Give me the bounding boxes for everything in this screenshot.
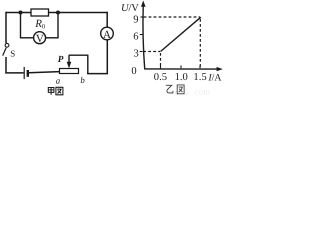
x tick 0.5	[160, 65, 162, 68]
wire voltmeter left horizontal	[20, 37, 34, 39]
wire slider to right branch	[69, 54, 88, 56]
wire bottom left	[5, 72, 23, 74]
resistor R0 box	[31, 9, 49, 16]
rheostat body	[60, 69, 79, 74]
wire voltmeter branch left vertical	[20, 13, 22, 38]
svg-text:6: 6	[133, 32, 138, 43]
wire right vertical lower	[106, 40, 108, 75]
y tick 9	[140, 16, 143, 18]
wire top horizontal	[6, 12, 108, 14]
svg-text:1.5: 1.5	[193, 72, 206, 83]
graph x-axis	[144, 68, 217, 70]
svg-text:0: 0	[42, 23, 45, 30]
x tick 1.0	[180, 65, 182, 68]
node dot left	[19, 11, 23, 15]
svg-text:b: b	[80, 75, 85, 85]
svg-text:V: V	[131, 3, 139, 14]
dashed line U=9	[144, 16, 200, 18]
svg-text:3: 3	[134, 49, 139, 60]
svg-text:P: P	[58, 55, 64, 65]
wire bottom right	[87, 73, 108, 75]
svg-text:wen5. com: wen5. com	[168, 86, 211, 96]
svg-text:1.0: 1.0	[175, 72, 188, 83]
svg-text:S: S	[10, 48, 15, 58]
battery cell: short thick plate	[27, 70, 29, 77]
ammeter A	[101, 27, 114, 40]
y tick 6	[140, 34, 143, 36]
graph y-axis	[143, 6, 145, 69]
wire left vertical upper	[5, 12, 7, 44]
node dot right	[56, 11, 60, 15]
svg-text:/A: /A	[212, 72, 222, 83]
wire right-mid vertical	[87, 55, 89, 75]
wire left vertical lower	[5, 57, 7, 74]
svg-text:V: V	[36, 33, 44, 45]
battery cell: long plate	[23, 67, 25, 79]
rheostat slider arrow P	[68, 55, 70, 62]
caption jia-tu (figure 1)	[48, 87, 63, 95]
switch S	[5, 43, 9, 47]
dashed line I=0.5	[160, 53, 162, 68]
y tick 3	[140, 51, 143, 53]
svg-text:0: 0	[131, 66, 136, 77]
svg-text:a: a	[56, 75, 61, 85]
wire voltmeter right horizontal	[46, 37, 59, 39]
x tick 1.5	[199, 65, 201, 68]
voltmeter V	[34, 32, 46, 44]
caption yi-tu (figure 2)	[166, 85, 184, 94]
dashed line I=1.5	[199, 19, 201, 68]
svg-text:0.5: 0.5	[154, 72, 167, 83]
U-I line	[161, 17, 201, 51]
dashed line U=3	[143, 51, 160, 53]
wire battery to rheostat	[29, 72, 60, 73]
wire voltmeter branch right vertical	[57, 13, 59, 38]
wire right vertical upper	[106, 12, 108, 27]
svg-text:A: A	[103, 29, 111, 41]
svg-text:9: 9	[133, 15, 138, 26]
